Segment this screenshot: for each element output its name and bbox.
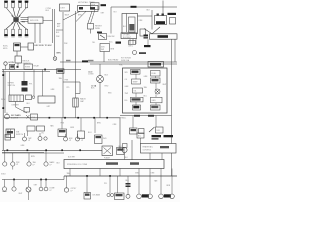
wire left edge bus — [2, 70, 4, 151]
label ignition assembly — [16, 132, 24, 136]
wire JB1 drop 3 — [135, 39, 137, 44]
label HM1 — [119, 146, 123, 148]
label wire color 25 — [144, 86, 148, 89]
svg-text:B+: B+ — [92, 7, 94, 9]
relay box RB2 — [141, 144, 177, 154]
label wire color 27 — [163, 84, 167, 86]
lamp br3 — [159, 194, 164, 199]
lamp L1 — [23, 133, 27, 141]
label under bus 1 — [50, 125, 54, 128]
fuse panel F1 — [78, 6, 99, 12]
junction c2 — [40, 179, 42, 181]
bus mid-left horizontal 2 — [2, 71, 50, 73]
label wire color 36 — [135, 173, 140, 175]
junction c1 — [13, 179, 15, 181]
flat box row — [27, 126, 45, 131]
spark plug P7 — [18, 29, 22, 36]
ignition module M1 — [14, 43, 21, 51]
junction b1 — [7, 149, 9, 151]
wire drop d4 — [23, 72, 25, 81]
spark plug P6 — [11, 29, 15, 36]
svg-text:RELAY: RELAY — [34, 65, 40, 68]
wire HB1 drop — [144, 39, 151, 47]
wire feed from top right — [52, 9, 54, 43]
wire right edge down — [171, 39, 173, 68]
label wire color 30 — [113, 124, 118, 126]
label flasher — [68, 157, 110, 160]
label plug 4 — [25, 0, 29, 2]
wire arrow left — [144, 29, 152, 34]
wire coil right stub — [43, 20, 53, 22]
label capacitor — [80, 98, 87, 103]
svg-text:OIL: OIL — [125, 79, 128, 81]
label wire color 38 — [104, 183, 107, 185]
svg-text:WSW: WSW — [1, 99, 6, 101]
svg-text:TACH: TACH — [65, 14, 70, 17]
label plug 2 — [11, 0, 15, 2]
cluster wire b — [135, 93, 137, 105]
connector C6 — [24, 108, 30, 113]
lamp L4 — [76, 134, 80, 141]
label fuse text left — [119, 58, 132, 67]
label wire color 14 — [67, 87, 70, 89]
grommet G3 — [133, 51, 137, 55]
label wire color 8 — [139, 20, 144, 22]
label knock sensor — [23, 61, 32, 65]
ESC module M2 — [28, 43, 34, 50]
component under bus 2 — [78, 131, 85, 139]
wire br stem 4 — [171, 169, 173, 195]
label wire color 12 — [111, 49, 115, 51]
label right of switch body — [109, 41, 113, 44]
wire K1 to R1 — [91, 9, 96, 23]
dimmer box — [156, 127, 164, 133]
label below cluster — [120, 115, 154, 120]
wire module down — [16, 51, 18, 56]
horn H1 — [4, 62, 7, 70]
label horn — [9, 62, 15, 64]
wire relay top right — [138, 15, 153, 17]
cluster item 5 — [133, 88, 143, 93]
wire stub h30 — [56, 29, 63, 31]
svg-text:STEERING COL CONN: STEERING COL CONN — [67, 164, 88, 166]
svg-text:PPL: PPL — [67, 87, 70, 89]
label plug 8 — [25, 36, 29, 39]
wire v120 — [119, 118, 121, 151]
svg-text:ESC MOD: ESC MOD — [35, 45, 45, 47]
svg-text:HEATER A/C: HEATER A/C — [143, 146, 154, 149]
blower relay RL1 — [122, 14, 138, 34]
wire fan right — [88, 11, 92, 23]
wire center v63 — [62, 62, 64, 118]
svg-text:A B C: A B C — [129, 45, 134, 48]
label wire color 19 — [108, 93, 112, 95]
wire capacitor down — [75, 107, 77, 118]
label L3 — [69, 138, 73, 142]
wire drop d3 — [42, 70, 44, 97]
fuse block item — [58, 129, 67, 137]
label JB1 pins — [129, 45, 134, 48]
svg-text:OIL: OIL — [41, 133, 44, 135]
bus top horizontal — [60, 61, 177, 63]
wire box drop c — [119, 169, 121, 177]
bus lower-right — [64, 175, 177, 177]
label wire color 13 — [59, 77, 63, 80]
wire blower feed — [151, 10, 153, 30]
svg-text:FUL: FUL — [125, 100, 128, 102]
hazard flasher X3 — [102, 146, 113, 156]
lamp X1 — [26, 115, 30, 119]
connector C5 — [22, 88, 28, 92]
wire JB1 drop 2 — [132, 39, 134, 44]
label connector K1 — [101, 4, 107, 6]
wire top right horizontal — [111, 6, 177, 8]
junction tick FB2 — [17, 66, 19, 68]
label module left — [3, 46, 9, 50]
wire spark plug 1 lead — [6, 8, 14, 17]
svg-text:PRNDL: PRNDL — [120, 118, 126, 120]
splice above switch — [97, 32, 102, 34]
gauge box GA1 — [130, 128, 138, 134]
label left of HB1 — [144, 35, 149, 39]
connector K1 — [91, 3, 100, 10]
label wire color 43 — [154, 180, 158, 183]
label wire color 39 — [126, 180, 130, 182]
wire fan left — [63, 11, 80, 20]
svg-text:PPL: PPL — [104, 183, 107, 185]
label X2 b — [105, 75, 109, 77]
lamp L3 — [64, 134, 68, 141]
junction block JB1 — [121, 33, 137, 39]
grommet G1 — [53, 57, 57, 61]
connector C8 — [95, 135, 103, 144]
cluster lamp X — [155, 89, 160, 94]
svg-text:BRN: BRN — [57, 53, 62, 55]
resistor wire R1 — [88, 24, 103, 30]
junction d1 — [86, 175, 88, 177]
label wire color 1 — [56, 32, 60, 34]
label wire color 40 — [167, 185, 171, 187]
spark plug P8 — [25, 29, 29, 36]
wire X2 top — [99, 64, 101, 76]
cluster wire c — [155, 83, 157, 105]
label G3 — [139, 52, 146, 54]
label wire color 41 — [34, 185, 39, 187]
lamp bc1 — [64, 176, 68, 192]
label L1 — [28, 138, 32, 142]
svg-text:WHT: WHT — [19, 193, 23, 195]
label X2 a — [88, 72, 94, 76]
connector K2 — [170, 18, 176, 25]
label row1 d — [50, 161, 56, 166]
wire bc2 — [86, 176, 88, 193]
label wiper — [8, 83, 16, 87]
grommet G2 — [32, 96, 35, 99]
label wire color 11 — [92, 42, 95, 44]
label dist lead — [57, 24, 60, 28]
label wire color 18 — [47, 106, 52, 108]
label wire color 16 — [1, 99, 6, 101]
switch bc4 — [115, 193, 125, 200]
label C4 — [29, 84, 32, 86]
label wire color 37 — [151, 173, 156, 175]
key buzzer circle — [5, 113, 10, 119]
wire C9 stem — [140, 138, 142, 144]
wire harness vertical 2 — [75, 11, 77, 94]
label bottom left corner — [1, 174, 7, 176]
wire drop u2 — [80, 118, 82, 131]
wire resistor down — [90, 29, 92, 34]
junction t1 — [49, 117, 51, 119]
wire cluster drop a — [132, 116, 134, 129]
lamp br0 — [126, 194, 130, 198]
svg-text:CONTROL: CONTROL — [143, 149, 152, 151]
cluster item 6 — [131, 97, 144, 102]
label wire color 2 — [56, 36, 60, 38]
wiper motor WM1 — [9, 95, 24, 102]
label wire color 34 — [67, 172, 71, 175]
wire left edge bus 2 — [4, 72, 6, 113]
instrument cluster box — [123, 68, 168, 113]
label top right of coil — [46, 8, 52, 12]
relay contact wire — [126, 14, 128, 33]
junction tick — [131, 6, 137, 8]
wire blower top — [162, 1, 164, 14]
svg-text:DIMMER: DIMMER — [12, 105, 20, 107]
label plug 7 — [18, 36, 22, 39]
ignition switch S1 — [99, 34, 115, 40]
svg-text:GRN: GRN — [70, 127, 75, 129]
wire module link — [21, 46, 29, 48]
label plug 1 — [4, 0, 8, 2]
wire fan mid — [76, 11, 86, 21]
switch bc2 — [84, 193, 91, 200]
svg-text:MOD: MOD — [3, 48, 8, 50]
lamp row2 a — [2, 180, 6, 192]
label wire color 5 — [101, 13, 106, 15]
wire spark plug 7 lead — [17, 23, 20, 30]
wire arrow right — [152, 27, 160, 34]
wire X2 down — [99, 82, 101, 117]
lamp row2 c — [26, 180, 31, 201]
relay coil — [129, 17, 136, 32]
junction b4 — [79, 149, 81, 151]
bulkhead connector X2 — [97, 76, 104, 83]
label bc1 — [71, 188, 78, 192]
bus top horizontal 2 — [90, 63, 177, 65]
label above fuse panel — [78, 1, 95, 4]
label br3 — [164, 194, 171, 197]
label wire color 4 — [78, 15, 82, 17]
junction t3 — [77, 117, 79, 119]
label wire color 29 — [97, 123, 101, 125]
connector C7 — [31, 114, 38, 120]
lamp L2 — [38, 133, 42, 141]
label wire color 24 — [144, 76, 149, 78]
wire diagonal column — [16, 107, 28, 113]
label wire color 23 — [125, 100, 128, 102]
lamp row1 d — [44, 150, 48, 166]
wire RB2 drop b — [161, 153, 163, 160]
wire JB1 drop 1 — [129, 39, 131, 44]
wire drop u1 — [61, 118, 63, 129]
svg-text:WHT: WHT — [163, 84, 167, 86]
bus mid-left horizontal — [2, 69, 81, 71]
contact box B2 — [24, 64, 33, 69]
svg-text:OIL: OIL — [134, 91, 137, 93]
blower motor BM1 — [155, 14, 167, 25]
label wire color 33 — [57, 163, 61, 165]
label wire color 3 — [65, 14, 70, 17]
wire br stem 0 — [126, 176, 131, 194]
wire cluster drop b — [155, 116, 157, 128]
wire drop d1 — [9, 72, 11, 95]
wire box drop b — [99, 169, 101, 177]
svg-text:IGN COIL: IGN COIL — [30, 20, 40, 22]
wire bc3 — [109, 176, 111, 193]
spark plug P2 — [11, 1, 15, 8]
svg-text:SW: SW — [101, 49, 104, 51]
label row1 c — [33, 161, 36, 166]
cluster item 3 — [132, 79, 141, 84]
svg-text:HEI: HEI — [22, 22, 26, 24]
wire spark plug 3 lead — [17, 8, 20, 17]
wire column drop — [27, 131, 29, 136]
lamp row2 d — [39, 180, 43, 191]
wire box drop a — [69, 169, 71, 177]
svg-text:TEMP: TEMP — [133, 82, 139, 84]
cluster item 8 — [133, 105, 141, 110]
label wire color 21 — [125, 86, 129, 88]
junction b2 — [27, 149, 29, 151]
label wire color 9 — [147, 10, 151, 12]
ignition switch assembly — [6, 129, 15, 138]
wire right edge v3 — [171, 153, 173, 176]
wire center h — [63, 81, 80, 83]
junction t4 — [93, 117, 95, 119]
label column — [12, 105, 20, 107]
svg-text:BLK WHT: BLK WHT — [68, 157, 75, 159]
junction c3 — [45, 179, 47, 181]
label grommet — [57, 53, 62, 55]
label B2 right — [34, 65, 40, 68]
svg-text:FUEL: FUEL — [152, 73, 157, 75]
wire column — [15, 102, 17, 108]
label wire color 42 — [19, 193, 23, 195]
diode D1 — [140, 29, 146, 36]
junction b5 — [61, 149, 63, 151]
svg-text:HORN: HORN — [25, 66, 31, 68]
radio capacitor CAP1 — [73, 98, 78, 107]
label wire color 7 — [123, 26, 127, 28]
wire spark plug 6 lead — [13, 23, 15, 30]
svg-text:SWITCH: SWITCH — [16, 134, 24, 136]
bus step — [63, 176, 65, 180]
lamp row2 b — [12, 180, 16, 192]
wire br stem 3 — [160, 169, 162, 195]
junction t5 — [106, 117, 108, 119]
cluster wire a — [136, 74, 156, 79]
wire bc4 — [117, 176, 119, 193]
label key buzzer — [11, 114, 21, 119]
connector C9 — [137, 133, 144, 138]
label bc2 — [93, 194, 101, 197]
wire spark plug 4 lead — [19, 8, 27, 17]
cluster item 1 — [125, 70, 141, 75]
svg-text:FUSE 10A: FUSE 10A — [121, 59, 130, 62]
lamp L2b — [44, 137, 47, 140]
wire coil output — [34, 23, 36, 43]
wire harness vertical 1 — [62, 12, 64, 62]
wire coil tach lead — [39, 23, 41, 43]
wire spark plug 2 lead — [13, 8, 15, 17]
fuse block FB6 — [148, 62, 164, 68]
connector box K3 — [129, 41, 136, 45]
wire relay feed — [110, 7, 112, 34]
label dark r1 — [152, 135, 162, 140]
spark plug P3 — [18, 1, 22, 8]
lamp bc3 — [107, 193, 114, 196]
cluster item 7 — [151, 97, 163, 103]
junction d2 — [109, 175, 111, 177]
label wire color 10 — [64, 43, 68, 45]
svg-text:TO ESC: TO ESC — [45, 45, 53, 47]
wire right edge v — [171, 68, 173, 116]
svg-text:IGN SW: IGN SW — [108, 36, 115, 38]
label row2 — [50, 188, 56, 192]
gauge box GA2 — [139, 129, 145, 134]
svg-text:EST: EST — [57, 26, 60, 28]
connector C4 — [22, 81, 28, 86]
label row1 b — [16, 162, 20, 166]
wire br stem 2 — [149, 169, 151, 195]
splice on bus — [82, 60, 88, 62]
label center — [65, 80, 69, 82]
svg-text:CONN: CONN — [88, 74, 94, 76]
label wire color 20 — [125, 79, 128, 81]
spark plug P4 — [25, 1, 29, 8]
wire spark plug 8 lead — [19, 23, 27, 30]
label ESC module — [35, 45, 53, 47]
label wire color 22 — [125, 93, 129, 95]
knock sensor B1 — [15, 56, 22, 66]
junction box J1 — [60, 4, 70, 11]
wire feed 2 — [54, 9, 56, 56]
label under bus 2 — [70, 127, 92, 134]
label X2 c — [91, 85, 109, 90]
label br1 — [142, 194, 149, 197]
wire capacitor stem — [75, 94, 77, 99]
label L2 — [41, 133, 44, 135]
label C8 — [103, 138, 107, 140]
wire right edge down 2 — [174, 39, 176, 62]
washer pump WP1 — [26, 95, 32, 100]
fuse F4 — [57, 69, 65, 74]
bus center horizontal — [4, 117, 120, 119]
wire br stem 1 — [138, 169, 140, 195]
label bulkhead — [108, 59, 119, 62]
bus lower-left 3 — [2, 179, 64, 181]
label fusible link — [168, 13, 177, 15]
junction dot left a — [2, 74, 4, 76]
ignition coil C1 — [28, 17, 43, 23]
wire spark plug 5 lead — [6, 23, 14, 30]
wire drop u3 — [94, 118, 96, 133]
label wire color 32 — [31, 156, 35, 158]
label wire color 28 — [61, 123, 65, 125]
svg-text:DR JAMB: DR JAMB — [93, 194, 101, 197]
bus lower-left 2 — [2, 152, 64, 154]
